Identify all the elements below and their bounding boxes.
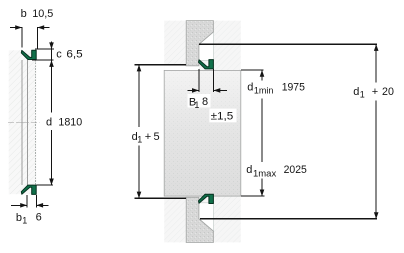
svg-text:1975: 1975	[282, 81, 305, 93]
dimension d1min: extension line	[241, 69, 264, 71]
svg-text:8: 8	[202, 96, 208, 108]
svg-text:1: 1	[360, 90, 365, 100]
dimension d1+5: top extension line	[134, 64, 186, 66]
svg-text:2025: 2025	[284, 164, 307, 176]
dimension b1: left arrow and tail	[11, 204, 27, 206]
right figure white gap strip bottom	[164, 193, 199, 199]
seal top (right figure)	[199, 60, 214, 69]
svg-text:10,5: 10,5	[32, 8, 53, 20]
dimension B1: left arrow and tail	[187, 89, 199, 91]
dimension b: extension lines	[21, 27, 23, 48]
svg-text:6: 6	[36, 212, 42, 224]
shaft section bottom band	[186, 197, 213, 242]
dimension B1: label background box	[188, 94, 211, 108]
svg-text:20: 20	[382, 86, 394, 98]
right figure white groove recess bottom	[199, 203, 214, 231]
svg-text:1: 1	[194, 100, 199, 110]
dimension d1min/d1max: vertical line segments with arrows	[261, 70, 263, 81]
dimension b: right arrow and tail	[37, 27, 49, 29]
dimension d1+5: vertical line with arrows	[138, 65, 140, 127]
seal top (left figure)	[21, 50, 36, 59]
housing block	[164, 70, 241, 196]
svg-text:6,5: 6,5	[66, 49, 82, 61]
svg-text:1max: 1max	[253, 168, 277, 178]
svg-text:+: +	[145, 131, 151, 143]
dimension c: bottom extension line (shared with d)	[32, 59, 54, 61]
seal bottom (left figure, mirrored)	[21, 185, 36, 194]
left figure section edge line B	[27, 60, 29, 185]
left figure section edge line C	[34, 60, 36, 185]
dimension c: vertical line with outside arrows	[51, 41, 53, 60]
right figure housing hatch region	[164, 21, 241, 243]
svg-text:1: 1	[137, 134, 142, 144]
left figure section edge line A	[21, 60, 23, 185]
svg-text:b: b	[21, 8, 27, 20]
svg-text:d: d	[353, 86, 359, 98]
svg-text:5: 5	[154, 131, 160, 143]
svg-text:c: c	[56, 49, 62, 61]
dimension d: vertical line lower segment with down arrow	[51, 130, 53, 185]
svg-text:d: d	[246, 164, 252, 176]
dimension d: bottom extension line	[37, 184, 54, 186]
dimension d1+5: bottom extension line	[134, 197, 186, 199]
svg-text:±1,5: ±1,5	[211, 111, 234, 123]
dimension d: vertical line upper segment with up arrow	[51, 60, 53, 112]
svg-text:1min: 1min	[254, 86, 274, 96]
svg-text:1810: 1810	[58, 116, 82, 128]
svg-text:d: d	[247, 81, 253, 93]
long extension line bottom (shaft surface)	[200, 218, 377, 220]
dimension B1: tolerance background box	[209, 109, 236, 123]
dimension B1: extension lines	[198, 69, 200, 92]
svg-text:b: b	[16, 212, 22, 224]
dimension c: top extension line	[35, 48, 54, 50]
shaft section top band	[186, 21, 213, 66]
right figure white groove recess top	[199, 32, 214, 60]
svg-text:+: +	[372, 86, 378, 98]
dimension b1: extension lines	[26, 195, 28, 207]
right figure white gap strip top	[164, 65, 199, 70]
dimension d1+20: vertical line with arrows	[375, 44, 377, 82]
dimension B1: right arrow and tail	[214, 89, 228, 91]
dimension b1: right arrow and tail	[36, 204, 48, 206]
seal bottom (right figure, mirrored)	[199, 194, 214, 203]
left figure centerline	[8, 121, 40, 123]
dimension b: left arrow and tail	[10, 27, 22, 29]
long extension line top (shaft surface)	[199, 43, 377, 45]
svg-text:1: 1	[22, 216, 27, 226]
svg-text:d: d	[46, 116, 52, 128]
left figure hatched section body	[9, 50, 37, 194]
dimension d1max: extension line	[241, 195, 264, 197]
